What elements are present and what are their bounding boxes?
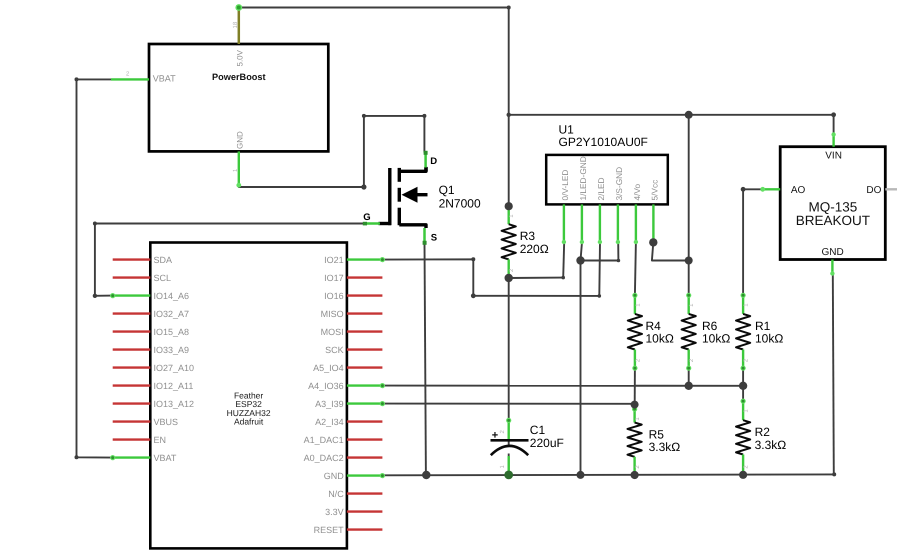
svg-text:N/C: N/C xyxy=(328,489,344,499)
svg-text:4/Vo: 4/Vo xyxy=(632,184,642,201)
svg-text:VIN: VIN xyxy=(825,151,842,162)
svg-text:PowerBoost: PowerBoost xyxy=(212,72,266,82)
svg-text:+: + xyxy=(492,430,498,442)
svg-text:220uF: 220uF xyxy=(530,436,564,450)
svg-text:IO16: IO16 xyxy=(324,291,344,301)
svg-text:DO: DO xyxy=(866,185,881,196)
svg-text:3.3kΩ: 3.3kΩ xyxy=(755,438,787,452)
svg-text:SCK: SCK xyxy=(325,345,344,355)
svg-text:5/Vcc: 5/Vcc xyxy=(650,180,660,201)
svg-text:G: G xyxy=(363,212,370,223)
svg-text:AO: AO xyxy=(791,185,806,196)
svg-text:MISO: MISO xyxy=(321,309,344,319)
svg-text:2N7000: 2N7000 xyxy=(439,197,481,211)
svg-text:3.3kΩ: 3.3kΩ xyxy=(649,440,681,454)
svg-text:A3_I39: A3_I39 xyxy=(315,399,344,409)
svg-text:A5_IO4: A5_IO4 xyxy=(313,363,344,373)
svg-text:MOSI: MOSI xyxy=(321,327,344,337)
svg-text:Adafruit: Adafruit xyxy=(234,417,264,427)
svg-text:Q1: Q1 xyxy=(439,183,455,197)
svg-text:0/V-LED: 0/V-LED xyxy=(560,170,570,201)
svg-text:IO15_A8: IO15_A8 xyxy=(154,327,190,337)
svg-text:GP2Y1010AU0F: GP2Y1010AU0F xyxy=(559,135,648,149)
svg-text:VBAT: VBAT xyxy=(153,74,176,84)
svg-text:BREAKOUT: BREAKOUT xyxy=(796,213,870,228)
svg-text:10kΩ: 10kΩ xyxy=(755,332,783,346)
svg-text:S: S xyxy=(431,233,437,244)
svg-text:VBUS: VBUS xyxy=(154,417,179,427)
svg-text:A1_DAC1: A1_DAC1 xyxy=(304,435,344,445)
svg-text:5.0V: 5.0V xyxy=(236,49,245,66)
svg-text:1/LED-GND: 1/LED-GND xyxy=(578,156,588,200)
svg-text:EN: EN xyxy=(154,435,167,445)
svg-text:C1: C1 xyxy=(530,423,546,437)
svg-text:A0_DAC2: A0_DAC2 xyxy=(304,453,344,463)
svg-text:3/S-GND: 3/S-GND xyxy=(614,167,624,201)
svg-text:IO33_A9: IO33_A9 xyxy=(154,345,190,355)
svg-text:GND: GND xyxy=(821,247,843,258)
svg-text:A2_I34: A2_I34 xyxy=(315,417,344,427)
svg-text:IO21: IO21 xyxy=(324,255,344,265)
svg-text:A4_IO36: A4_IO36 xyxy=(308,381,344,391)
svg-text:IO27_A10: IO27_A10 xyxy=(154,363,195,373)
svg-text:RESET: RESET xyxy=(314,525,345,535)
svg-text:GND: GND xyxy=(236,131,245,149)
svg-text:220Ω: 220Ω xyxy=(520,242,549,256)
svg-text:IO32_A7: IO32_A7 xyxy=(154,309,190,319)
svg-text:SDA: SDA xyxy=(154,255,173,265)
svg-text:IO14_A6: IO14_A6 xyxy=(154,291,190,301)
svg-text:2/LED: 2/LED xyxy=(596,177,606,200)
svg-text:GND: GND xyxy=(324,471,345,481)
svg-text:D: D xyxy=(430,156,437,167)
svg-text:10kΩ: 10kΩ xyxy=(702,332,730,346)
svg-text:10kΩ: 10kΩ xyxy=(646,332,674,346)
svg-text:3.3V: 3.3V xyxy=(325,507,344,517)
svg-text:IO12_A11: IO12_A11 xyxy=(154,381,194,391)
svg-text:SCL: SCL xyxy=(154,273,172,283)
svg-text:18: 18 xyxy=(232,21,239,28)
svg-text:IO13_A12: IO13_A12 xyxy=(154,399,195,409)
svg-text:VBAT: VBAT xyxy=(154,453,177,463)
svg-text:IO17: IO17 xyxy=(324,273,344,283)
